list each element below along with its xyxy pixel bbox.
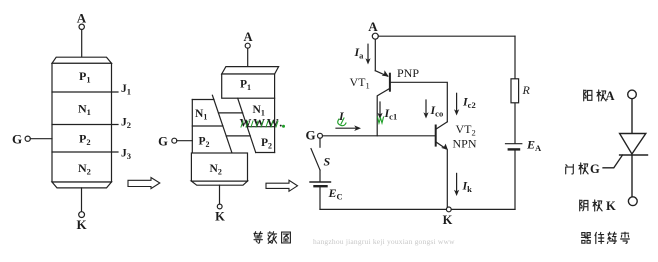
svg-text:hangzhou jiangrui keji youxian: hangzhou jiangrui keji youxian gongsi ww… [313,237,455,246]
svg-text:Ico: Ico [430,103,444,119]
svg-text:K: K [443,213,453,227]
layer label P1 (right stack) [240,79,251,93]
wire EC down to rail [319,187,321,209]
current Ic1 label [384,106,398,122]
svg-text:EC: EC [328,186,343,202]
layer label N2 (middle) [210,163,222,177]
wire G to box [30,138,52,140]
resistor R [511,79,519,103]
svg-text:VT1: VT1 [350,75,370,91]
terminal A circle (middle) [245,43,250,48]
layer label P2 [79,132,91,148]
transistor VT2 collector [436,122,448,130]
wire cathode down [631,155,633,197]
current Ic2 arrow [456,93,458,111]
wire N2 to K [219,185,221,204]
svg-text:Ic2: Ic2 [462,95,476,111]
box bottom lid (3D) [52,182,112,188]
N2 box bottom lid (3D) [191,181,247,185]
svg-text:A: A [77,11,87,26]
right stack right edge [274,98,276,152]
node A (middle) label [243,30,252,44]
junction line N1/P2 right stack [247,126,274,128]
battery EC long plate [310,181,331,183]
box top lid (3D) [52,57,112,63]
box body outline [52,63,112,182]
transistor VT1 collector [377,88,390,136]
svg-text:J1: J1 [121,83,131,97]
wire top rail A to R branch [378,35,515,37]
layer label N2 [78,161,91,177]
wire VT1 base to VT2 collector [390,82,447,122]
current Ic2 label [462,95,476,111]
wire A to box top [81,30,83,58]
svg-text:K: K [606,199,616,213]
thyristor cathode bar [620,154,648,156]
node A (circuit) label [368,19,378,34]
layer label N1 (left stack) [195,108,207,122]
wire G down to switch [319,138,321,147]
transistor VT1 emitter (arrow into base, PNP) [375,71,387,77]
green watermark hatch [241,121,278,127]
terminal A circle (left structure) [79,24,84,29]
current Ik arrow [456,173,458,192]
cathode label 阴极 K [580,200,588,211]
battery EA long plate [506,143,522,145]
caption 器件符号 [581,233,590,244]
hollow arrow 2 [266,180,298,191]
current Ia arrow [367,44,369,60]
anode label 阳极 A [584,90,592,101]
label J1 [121,83,131,97]
switch S label [324,155,331,169]
svg-text:Ik: Ik [462,179,473,195]
svg-text:Ic1: Ic1 [384,106,398,122]
node G (left structure) label [12,132,22,147]
diagonal cut B (right stack left edge) [238,98,256,152]
svg-text:Ia: Ia [354,45,365,61]
pink watermark line [313,237,455,246]
node K (circuit) label [443,213,453,227]
svg-text:I: I [338,109,345,123]
transistor VT1 type label PNP [397,66,419,80]
junction J3 line [52,151,118,153]
green watermark mark at Ic1 [378,117,384,123]
thyristor triangle [620,134,646,155]
junction line N1/P2 left stack [192,125,223,127]
caption 等效图 [254,232,262,243]
layer label P1 [79,69,91,85]
svg-text:K: K [76,217,87,232]
svg-text:S: S [324,155,331,169]
wire G to left stack [177,140,193,142]
terminal G circle (left structure) [25,136,30,141]
current Ig label [338,109,345,123]
svg-text:G: G [305,128,315,143]
diagonal cut A (left stack right edge) [212,95,232,153]
wire switch to battery EC [319,170,321,182]
battery EC label [328,186,343,202]
label J2 [121,117,131,131]
green watermark www [240,116,284,130]
svg-text:P2: P2 [199,136,210,150]
svg-text:J3: J3 [121,148,131,162]
svg-text:N1: N1 [195,108,207,122]
left stack left edge [191,100,193,154]
wire anode to triangle [631,99,633,134]
node K circle (circuit) [446,207,451,212]
svg-text:J2: J2 [121,117,131,131]
current Ico arrow [425,100,427,115]
terminal G circle (middle) [172,138,177,143]
wire R branch down [514,36,516,143]
current Ico label [430,103,444,119]
hollow arrow 1 [128,178,160,189]
gate lead [603,155,623,168]
wire A down to VT1 emitter [374,39,376,70]
layer label P2 (left stack) [199,136,210,150]
transistor VT2 label [456,122,476,138]
svg-text:K: K [215,210,225,224]
wire A to P1 lid [247,48,249,66]
terminal K circle (left structure) [79,212,85,218]
current Ic1 arrow [379,102,381,115]
layer label N1 [78,102,91,118]
anode terminal circle [628,90,637,99]
wire box to K [81,188,83,212]
terminal G circle (circuit) [318,133,323,138]
terminal K circle (middle) [217,204,222,209]
wire VT2 emitter down to K [446,150,448,210]
junction J2 line [52,124,118,126]
P1 box front [222,74,275,98]
node G (circuit) label [305,128,315,143]
right stack bottom edge [256,152,275,154]
battery EA short plate [509,148,519,150]
gate label 门极 G [566,165,574,174]
layer label P2 (right stack) [261,137,272,151]
current Ik label [462,179,473,195]
transistor VT2 emitter (arrow out, NPN) [436,142,446,149]
layer label N1 (right stack) [253,104,265,118]
svg-text:NPN: NPN [453,137,477,151]
svg-text:G: G [12,132,22,147]
terminal A circle (circuit) [372,33,378,39]
transistor VT1 label [350,75,370,91]
transistor VT2 base bar [435,126,437,146]
svg-text:P2: P2 [261,137,272,151]
shared junction surface line upper [219,112,243,114]
svg-text:EA: EA [526,138,542,154]
node A (left structure) label [77,11,87,26]
transistor VT1 base bar [389,74,391,91]
node K (left structure) label [76,217,87,232]
cathode terminal circle [628,197,637,206]
green watermark dot [282,125,285,128]
N2 box front [191,153,247,181]
battery EA label [526,138,542,154]
svg-text:VT2: VT2 [456,122,476,138]
transistor VT2 type label NPN [453,137,477,151]
bottom rail wire [320,208,515,210]
node K (middle) label [215,210,225,224]
left stack N1 top edge [192,99,214,101]
wire EA down to rail [514,151,516,210]
junction J1 line [52,91,118,93]
svg-text:R: R [522,83,531,97]
svg-text:G: G [158,135,168,149]
green watermark blob at Ig [338,118,346,126]
shared junction surface line lower [226,135,250,137]
svg-text:A: A [605,89,614,103]
svg-text:A: A [243,30,252,44]
resistor R label [522,83,531,97]
current Ig arrow [336,127,356,129]
svg-text:A: A [368,19,378,34]
label J3 [121,148,131,162]
battery EC short plate [315,185,327,187]
P1 box lid (3D) [222,67,279,74]
wire G to VT2 base [323,135,436,137]
current Ia label [354,45,365,61]
svg-text:G: G [590,162,600,176]
svg-text:PNP: PNP [397,66,419,80]
node G (middle) label [158,135,168,149]
switch S blade [311,149,320,170]
